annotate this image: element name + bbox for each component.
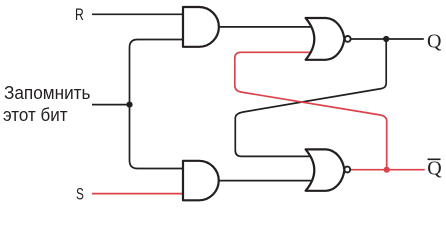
NOR gate bottom bubble	[344, 167, 350, 173]
node enable junction	[126, 102, 132, 108]
svg-text:этот бит: этот бит	[3, 105, 68, 125]
node Qbar junction (red)	[384, 167, 390, 173]
wire R input	[92, 13, 183, 15]
label Qbar overline	[428, 158, 441, 160]
wire S input (red)	[92, 193, 183, 195]
svg-text:Q: Q	[427, 31, 442, 53]
NOR gate bottom body	[306, 149, 345, 190]
wire AND1 output to NOR1	[219, 26, 313, 28]
wire Qbar feedback to NOR1 (red)	[235, 52, 387, 169]
wire enable horizontal from label	[92, 104, 130, 106]
wire enable branch vertical with corners	[130, 40, 184, 169]
wire Q output	[350, 38, 424, 40]
svg-text:R: R	[75, 5, 84, 24]
svg-text:S: S	[76, 184, 84, 203]
svg-text:Q: Q	[427, 158, 442, 180]
wire AND2 output to NOR2	[219, 180, 313, 182]
wire Q feedback to NOR2	[235, 39, 386, 156]
svg-text:Запомнить: Запомнить	[4, 83, 91, 103]
wire Qbar output (red)	[350, 169, 425, 171]
node Q junction	[383, 36, 389, 42]
NOR gate top bubble	[345, 36, 351, 42]
NOR gate top body	[306, 18, 345, 60]
AND gate bottom	[183, 161, 219, 201]
AND gate top	[183, 7, 219, 47]
